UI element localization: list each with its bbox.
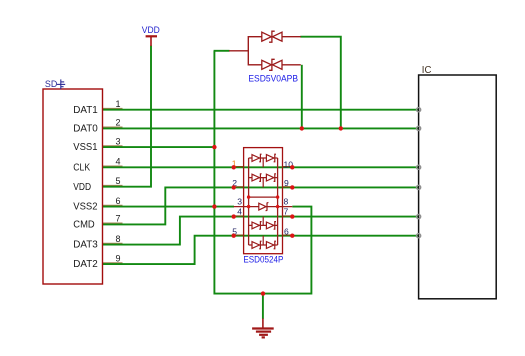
svg-text:VDD: VDD	[142, 25, 160, 35]
channel row A diodes	[249, 154, 278, 167]
svg-text:DAT2: DAT2	[73, 259, 98, 270]
svg-text:1: 1	[116, 99, 121, 109]
middle clamp diode	[259, 202, 269, 210]
IC box	[419, 75, 497, 299]
SD pin numbers	[116, 99, 121, 263]
ESD pin stubs left/right	[234, 167, 293, 236]
ESD internal rails	[249, 158, 278, 245]
wire CMD jog to ESD pin2 row	[103, 187, 419, 224]
svg-text:DAT1: DAT1	[73, 105, 98, 116]
svg-text:3: 3	[237, 196, 242, 206]
svg-text:CLK: CLK	[73, 162, 90, 173]
svg-text:8: 8	[284, 196, 289, 206]
svg-text:9: 9	[116, 253, 121, 263]
svg-text:SD: SD	[45, 79, 58, 90]
VDD power symbol	[146, 36, 157, 46]
svg-text:ESD5V0APB: ESD5V0APB	[248, 74, 298, 84]
svg-text:7: 7	[284, 206, 289, 216]
wire CLK net	[103, 166, 419, 168]
SD card connector box	[43, 89, 103, 284]
svg-text:4: 4	[116, 157, 121, 167]
svg-text:ESD0524P: ESD0524P	[243, 255, 283, 265]
svg-text:7: 7	[116, 214, 121, 224]
wire DAT0 net	[103, 127, 419, 129]
channel row B diodes	[249, 174, 278, 188]
SD pin names	[73, 105, 98, 270]
wire ground vertical and bottom rail to ESD pin8	[214, 51, 311, 294]
tie line	[249, 196, 278, 198]
wire TVS bottom right	[301, 65, 303, 129]
wire TVS left lead green part	[214, 50, 230, 52]
svg-text:IC: IC	[422, 65, 432, 76]
svg-text:5: 5	[116, 176, 121, 186]
channel row C diodes	[249, 217, 278, 230]
svg-text:3: 3	[116, 136, 121, 146]
TVS diode D-bottom symbol	[262, 59, 282, 70]
wire VSS2 net	[103, 206, 234, 208]
ESD0524P array box	[244, 148, 283, 254]
TVS diode pair ESD5V0APB	[229, 36, 301, 66]
wire DAT1 net	[103, 109, 419, 111]
wire DAT3 jog to ESD pin4 row	[103, 217, 419, 245]
svg-text:DAT0: DAT0	[73, 124, 98, 135]
svg-text:6: 6	[116, 196, 121, 206]
svg-text:VSS2: VSS2	[73, 202, 97, 213]
wire VSS1 net	[103, 146, 215, 148]
wire ground stub	[262, 294, 264, 319]
SD pin stubs (dark blend over wires)	[103, 109, 123, 263]
svg-text:2: 2	[116, 118, 121, 128]
left vertical + leads	[247, 36, 249, 66]
channel row D diodes	[249, 236, 278, 249]
svg-text:4: 4	[237, 206, 242, 216]
junction dots	[212, 126, 343, 296]
svg-text:6: 6	[284, 226, 289, 236]
svg-text:VSS1: VSS1	[73, 142, 97, 153]
wire VDD pin5 to VDD rail	[103, 46, 151, 187]
pin3 to pin8 red line (middle clamp row)	[234, 206, 293, 208]
wire TVS top right	[300, 37, 341, 129]
ground symbol	[252, 319, 274, 338]
svg-text:8: 8	[116, 234, 121, 244]
svg-text:9: 9	[284, 178, 289, 188]
TVS diode D-top symbol	[262, 31, 282, 42]
IC terminal rings	[417, 108, 421, 238]
svg-text:VDD: VDD	[73, 182, 91, 193]
svg-text:CMD: CMD	[73, 220, 94, 231]
svg-text:DAT3: DAT3	[73, 240, 98, 251]
ESD pin numbers	[232, 158, 294, 236]
wire DAT2 jog to ESD pin5 row	[103, 236, 419, 264]
